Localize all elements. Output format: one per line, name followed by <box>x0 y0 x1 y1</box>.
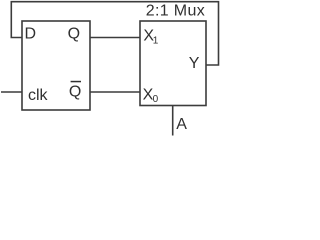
svg-text:A: A <box>176 116 187 133</box>
svg-text:D: D <box>25 25 37 42</box>
svg-text:Y: Y <box>189 55 200 72</box>
svg-text:Q: Q <box>69 84 81 101</box>
svg-text:0: 0 <box>153 94 159 105</box>
svg-text:1: 1 <box>153 36 159 47</box>
svg-text:2:1 Mux: 2:1 Mux <box>146 3 205 20</box>
svg-text:Q: Q <box>68 25 80 42</box>
svg-text:clk: clk <box>28 87 49 104</box>
